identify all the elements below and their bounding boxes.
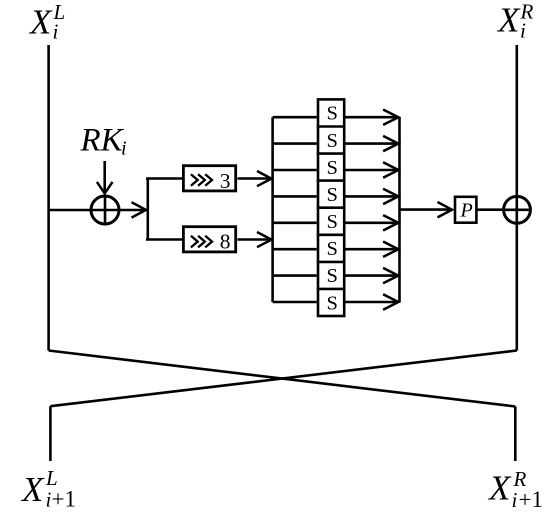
svg-text:S: S — [327, 184, 338, 206]
svg-text:+1: +1 — [519, 487, 543, 512]
svg-text:S: S — [327, 103, 338, 125]
svg-text:S: S — [327, 211, 338, 233]
svg-text:X: X — [28, 3, 53, 42]
svg-text:i: i — [512, 488, 518, 512]
svg-text:+1: +1 — [52, 487, 76, 512]
svg-text:X: X — [20, 470, 45, 509]
svg-text:X: X — [487, 469, 512, 508]
svg-text:S: S — [327, 157, 338, 179]
svg-text:X: X — [496, 1, 521, 40]
svg-text:i: i — [121, 138, 127, 160]
svg-text:3: 3 — [220, 169, 231, 193]
svg-text:8: 8 — [220, 230, 231, 254]
svg-text:S: S — [327, 292, 338, 314]
svg-text:RK: RK — [80, 122, 125, 158]
svg-text:i: i — [53, 20, 59, 44]
svg-text:S: S — [327, 265, 338, 287]
svg-text:S: S — [327, 130, 338, 152]
svg-text:i: i — [520, 19, 526, 43]
svg-text:P: P — [460, 200, 473, 222]
svg-text:S: S — [327, 238, 338, 260]
